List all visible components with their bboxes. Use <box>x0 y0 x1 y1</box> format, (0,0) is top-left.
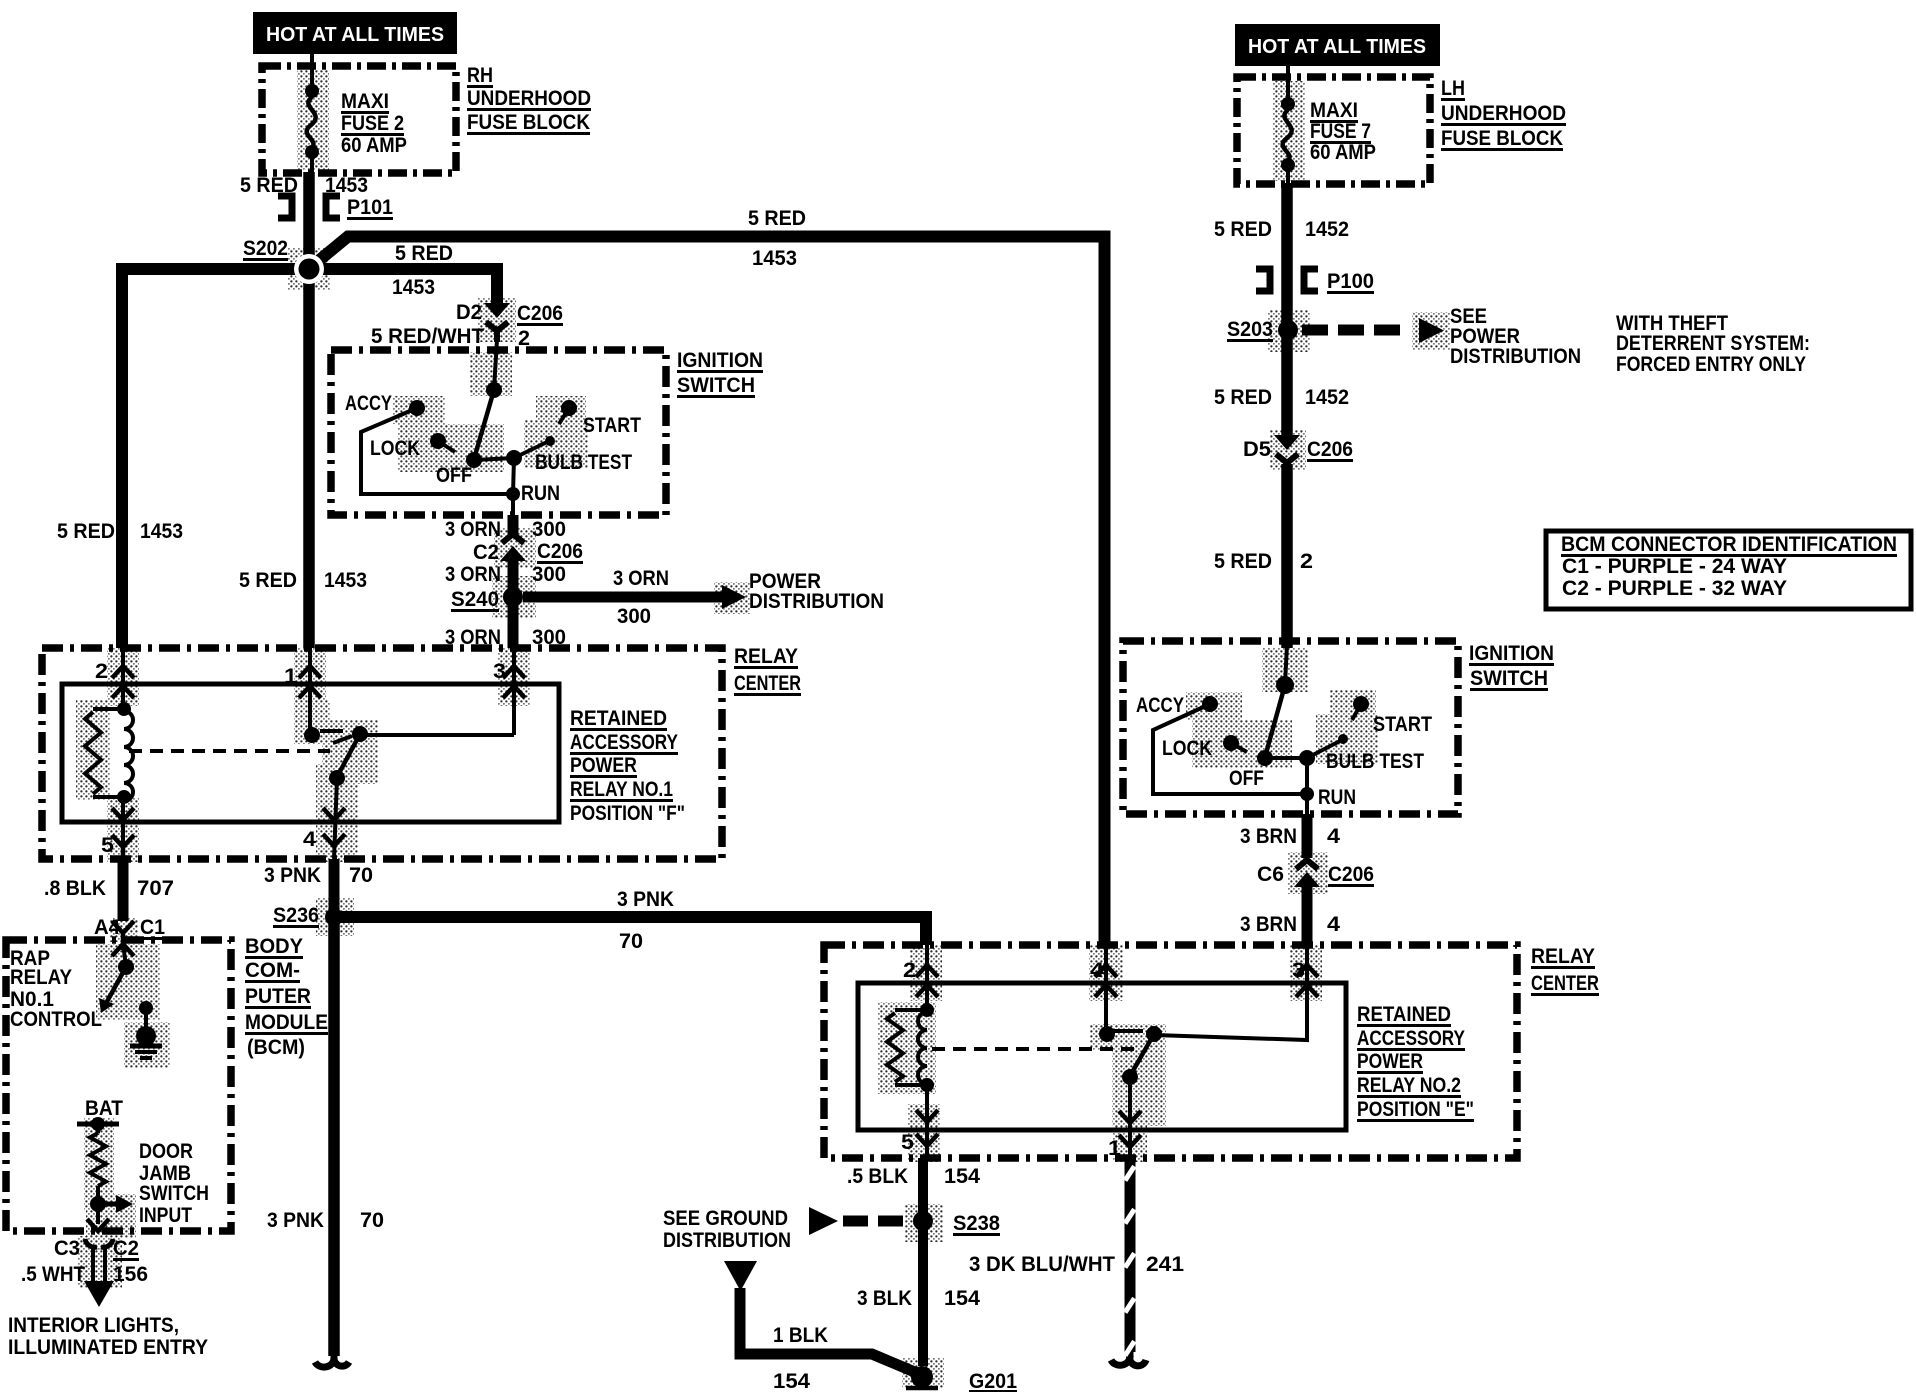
svg-text:C2: C2 <box>473 541 499 564</box>
svg-text:S203: S203 <box>1227 318 1273 341</box>
svg-text:C6: C6 <box>1257 863 1284 886</box>
svg-text:POSITION "E": POSITION "E" <box>1357 1098 1474 1121</box>
svg-text:UNDERHOOD: UNDERHOOD <box>1441 102 1566 125</box>
svg-text:5 RED: 5 RED <box>57 520 115 543</box>
svg-text:300: 300 <box>617 605 651 628</box>
svg-text:MAXI: MAXI <box>341 90 389 113</box>
svg-text:3 ORN: 3 ORN <box>445 563 501 586</box>
svg-text:C3: C3 <box>54 1237 80 1260</box>
svg-text:CONTROL: CONTROL <box>10 1008 102 1031</box>
svg-text:1452: 1452 <box>1305 218 1349 241</box>
svg-text:C206: C206 <box>517 302 563 325</box>
svg-text:FUSE 7: FUSE 7 <box>1310 120 1371 143</box>
svg-text:154: 154 <box>773 1370 810 1392</box>
svg-text:D5: D5 <box>1243 438 1271 461</box>
svg-text:1453: 1453 <box>140 520 183 543</box>
svg-text:C206: C206 <box>1307 438 1353 461</box>
svg-text:1452: 1452 <box>1305 386 1349 409</box>
svg-text:SWITCH: SWITCH <box>139 1182 209 1205</box>
svg-text:70: 70 <box>349 864 373 887</box>
svg-text:DISTRIBUTION: DISTRIBUTION <box>663 1229 791 1252</box>
svg-text:1 BLK: 1 BLK <box>773 1324 828 1347</box>
svg-text:.5 BLK: .5 BLK <box>847 1165 908 1188</box>
svg-text:3: 3 <box>493 660 506 683</box>
svg-text:1: 1 <box>284 665 297 688</box>
svg-text:3 BLK: 3 BLK <box>857 1287 912 1310</box>
svg-text:.5 WHT: .5 WHT <box>21 1263 85 1286</box>
svg-text:5 RED: 5 RED <box>1214 218 1272 241</box>
svg-text:DETERRENT SYSTEM:: DETERRENT SYSTEM: <box>1616 332 1810 355</box>
svg-text:3 PNK: 3 PNK <box>267 1209 324 1232</box>
svg-text:START: START <box>583 414 641 437</box>
svg-text:C2 - PURPLE - 32 WAY: C2 - PURPLE - 32 WAY <box>1562 577 1787 600</box>
svg-text:DISTRIBUTION: DISTRIBUTION <box>749 590 884 613</box>
svg-text:70: 70 <box>619 930 643 953</box>
svg-text:RELAY NO.2: RELAY NO.2 <box>1357 1074 1461 1097</box>
svg-text:C2: C2 <box>113 1237 139 1260</box>
svg-text:S236: S236 <box>273 904 319 927</box>
svg-text:5 RED: 5 RED <box>748 207 806 230</box>
svg-text:3 DK BLU/WHT: 3 DK BLU/WHT <box>969 1253 1115 1276</box>
svg-text:300: 300 <box>532 563 566 586</box>
svg-text:BAT: BAT <box>85 1097 123 1120</box>
svg-text:(BCM): (BCM) <box>247 1036 305 1059</box>
svg-text:INPUT: INPUT <box>139 1204 192 1227</box>
svg-text:2: 2 <box>903 959 916 982</box>
svg-text:IGNITION: IGNITION <box>677 349 763 372</box>
svg-text:S202: S202 <box>243 237 288 260</box>
svg-text:P100: P100 <box>1327 270 1374 293</box>
svg-text:MAXI: MAXI <box>1310 99 1358 122</box>
svg-text:4: 4 <box>303 828 316 851</box>
svg-text:ACCY: ACCY <box>345 392 392 415</box>
svg-text:S238: S238 <box>953 1212 1000 1235</box>
svg-text:C1 - PURPLE - 24 WAY: C1 - PURPLE - 24 WAY <box>1562 555 1787 578</box>
svg-text:IGNITION: IGNITION <box>1469 642 1554 665</box>
svg-text:BULB TEST: BULB TEST <box>1326 750 1424 773</box>
svg-text:PUTER: PUTER <box>245 985 311 1008</box>
svg-text:5 RED: 5 RED <box>1214 386 1272 409</box>
svg-text:5 RED: 5 RED <box>239 569 297 592</box>
svg-text:3 BRN: 3 BRN <box>1240 825 1297 848</box>
svg-text:60 AMP: 60 AMP <box>341 134 407 157</box>
svg-text:707: 707 <box>137 877 174 900</box>
svg-text:RETAINED: RETAINED <box>570 707 667 730</box>
svg-text:LOCK: LOCK <box>370 437 420 460</box>
svg-text:POWER: POWER <box>1357 1050 1423 1073</box>
svg-text:MODULE: MODULE <box>245 1011 328 1034</box>
svg-text:START: START <box>1373 713 1432 736</box>
svg-text:POWER: POWER <box>570 754 637 777</box>
svg-text:154: 154 <box>944 1165 980 1188</box>
svg-text:LH: LH <box>1441 77 1465 100</box>
svg-text:5: 5 <box>101 834 114 857</box>
svg-text:1453: 1453 <box>324 569 367 592</box>
svg-text:SEE GROUND: SEE GROUND <box>663 1207 788 1230</box>
svg-text:3 BRN: 3 BRN <box>1240 913 1297 936</box>
svg-text:154: 154 <box>944 1287 980 1310</box>
svg-text:3 PNK: 3 PNK <box>617 888 674 911</box>
svg-text:RELAY NO.1: RELAY NO.1 <box>570 778 673 801</box>
svg-text:P101: P101 <box>347 196 393 219</box>
svg-text:1453: 1453 <box>752 247 797 270</box>
svg-text:HOT AT ALL TIMES: HOT AT ALL TIMES <box>266 24 444 46</box>
svg-text:FUSE 2: FUSE 2 <box>341 112 404 135</box>
svg-text:D2: D2 <box>456 301 482 324</box>
svg-text:CENTER: CENTER <box>734 672 801 695</box>
svg-text:1: 1 <box>1108 1137 1121 1160</box>
svg-text:DOOR: DOOR <box>139 1140 193 1163</box>
svg-text:2: 2 <box>1300 550 1313 573</box>
svg-text:RELAY: RELAY <box>734 645 798 668</box>
svg-text:2: 2 <box>95 660 108 683</box>
svg-text:RELAY: RELAY <box>10 966 72 989</box>
svg-text:ACCESSORY: ACCESSORY <box>570 731 678 754</box>
svg-text:.8 BLK: .8 BLK <box>44 877 106 900</box>
svg-text:BODY: BODY <box>245 935 303 958</box>
svg-text:ILLUMINATED ENTRY: ILLUMINATED ENTRY <box>8 1336 208 1359</box>
svg-text:241: 241 <box>1146 1253 1184 1276</box>
svg-text:RH: RH <box>467 64 493 87</box>
svg-text:CENTER: CENTER <box>1531 972 1599 995</box>
svg-text:LOCK: LOCK <box>1162 737 1212 760</box>
svg-text:COM-: COM- <box>245 959 300 982</box>
svg-text:RETAINED: RETAINED <box>1357 1003 1451 1026</box>
svg-text:S240: S240 <box>451 588 499 611</box>
svg-text:5 RED/WHT: 5 RED/WHT <box>371 325 484 348</box>
svg-text:SWITCH: SWITCH <box>1470 667 1548 690</box>
svg-text:BULB TEST: BULB TEST <box>535 451 632 474</box>
svg-text:RUN: RUN <box>521 482 560 505</box>
svg-text:C206: C206 <box>1328 863 1374 886</box>
svg-text:4: 4 <box>1327 913 1340 936</box>
svg-text:300: 300 <box>532 518 566 541</box>
svg-text:5 RED: 5 RED <box>1214 550 1272 573</box>
svg-text:HOT AT ALL TIMES: HOT AT ALL TIMES <box>1248 36 1426 58</box>
svg-text:OFF: OFF <box>436 464 472 487</box>
svg-text:OFF: OFF <box>1229 767 1264 790</box>
svg-text:60 AMP: 60 AMP <box>1310 141 1376 164</box>
svg-text:UNDERHOOD: UNDERHOOD <box>467 87 591 110</box>
svg-text:156: 156 <box>113 1263 148 1286</box>
svg-text:3 PNK: 3 PNK <box>264 864 321 887</box>
svg-text:RUN: RUN <box>1318 786 1356 809</box>
svg-text:1453: 1453 <box>392 276 435 299</box>
svg-text:C1: C1 <box>140 916 165 939</box>
svg-text:5: 5 <box>901 1131 914 1154</box>
svg-text:RELAY: RELAY <box>1531 945 1595 968</box>
svg-text:70: 70 <box>360 1209 384 1232</box>
svg-text:ACCESSORY: ACCESSORY <box>1357 1027 1465 1050</box>
svg-text:DISTRIBUTION: DISTRIBUTION <box>1450 345 1581 368</box>
svg-text:FUSE BLOCK: FUSE BLOCK <box>1441 127 1563 150</box>
svg-text:ACCY: ACCY <box>1136 694 1184 717</box>
svg-text:4: 4 <box>1327 825 1340 848</box>
svg-text:4: 4 <box>1090 959 1104 982</box>
svg-text:3 ORN: 3 ORN <box>445 518 501 541</box>
svg-text:INTERIOR LIGHTS,: INTERIOR LIGHTS, <box>8 1314 179 1337</box>
svg-text:3 ORN: 3 ORN <box>613 567 669 590</box>
svg-text:C206: C206 <box>537 540 583 563</box>
svg-text:BCM CONNECTOR IDENTIFICATION: BCM CONNECTOR IDENTIFICATION <box>1561 533 1897 556</box>
svg-text:5 RED: 5 RED <box>395 242 453 265</box>
svg-text:FUSE BLOCK: FUSE BLOCK <box>467 111 590 134</box>
svg-text:3: 3 <box>1292 959 1305 982</box>
svg-text:SWITCH: SWITCH <box>677 374 755 397</box>
svg-text:FORCED ENTRY ONLY: FORCED ENTRY ONLY <box>1616 353 1806 376</box>
svg-text:POSITION "F": POSITION "F" <box>570 802 685 825</box>
svg-text:G201: G201 <box>969 1370 1017 1392</box>
